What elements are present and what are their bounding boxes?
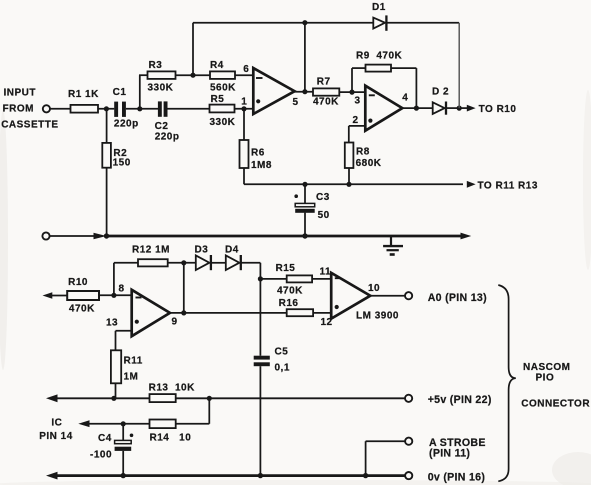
svg-text:+5v (PIN 22): +5v (PIN 22) bbox=[428, 394, 492, 406]
svg-text:0v (PIN 16): 0v (PIN 16) bbox=[428, 471, 485, 483]
svg-text:470K: 470K bbox=[313, 96, 339, 107]
resistor R5 bbox=[210, 105, 235, 113]
terminal A0 bbox=[405, 292, 412, 299]
arrowhead bbox=[94, 233, 107, 240]
wire bbox=[244, 183, 463, 185]
svg-text:220p: 220p bbox=[114, 118, 139, 129]
svg-text:R4: R4 bbox=[210, 60, 224, 71]
terminal A STROBE bbox=[405, 438, 412, 445]
capacitor C3 bbox=[304, 184, 306, 203]
wire bbox=[293, 91, 313, 93]
wire bbox=[446, 107, 461, 109]
diode D4 bbox=[226, 255, 240, 270]
resistor R14 bbox=[150, 420, 176, 429]
diode D3 bbox=[196, 255, 210, 270]
svg-text:10: 10 bbox=[368, 283, 380, 294]
svg-text:INPUT: INPUT bbox=[4, 88, 37, 99]
capacitor C4 bbox=[122, 424, 124, 441]
svg-text:6: 6 bbox=[243, 64, 249, 75]
svg-text:LM 3900: LM 3900 bbox=[356, 311, 399, 322]
node junction bbox=[302, 182, 307, 187]
wire bbox=[50, 108, 70, 110]
svg-text:FROM: FROM bbox=[3, 104, 34, 115]
wire bbox=[116, 330, 132, 332]
node junction bbox=[104, 106, 109, 111]
wire bbox=[312, 278, 331, 280]
wire bbox=[211, 262, 226, 264]
svg-text:470K: 470K bbox=[277, 285, 303, 296]
node junction bbox=[111, 396, 116, 401]
svg-text:330K: 330K bbox=[210, 117, 236, 128]
svg-text:D1: D1 bbox=[372, 2, 386, 13]
svg-text:1M: 1M bbox=[124, 372, 139, 383]
top wire bbox=[193, 22, 374, 24]
svg-text:R15: R15 bbox=[276, 263, 296, 274]
svg-text:A0 (PIN 13): A0 (PIN 13) bbox=[428, 292, 487, 304]
node junction bbox=[111, 293, 116, 298]
svg-text:220p: 220p bbox=[155, 132, 180, 143]
input terminal bbox=[43, 105, 50, 112]
resistor R16 bbox=[287, 309, 313, 316]
svg-text:PIO: PIO bbox=[536, 373, 555, 384]
svg-text:D 2: D 2 bbox=[432, 86, 449, 97]
node junction bbox=[457, 106, 462, 111]
wire bbox=[208, 398, 210, 424]
svg-text:13: 13 bbox=[106, 317, 118, 328]
op-amp U1d bbox=[331, 273, 370, 319]
wire bbox=[458, 23, 460, 108]
node junction bbox=[302, 20, 307, 25]
resistor R1 bbox=[71, 105, 99, 113]
capacitor C2 bbox=[158, 101, 162, 116]
svg-text:R1 1K: R1 1K bbox=[68, 89, 99, 100]
svg-text:D3: D3 bbox=[195, 244, 209, 255]
svg-text:0,1: 0,1 bbox=[275, 363, 290, 374]
wire bbox=[313, 312, 331, 314]
arrow to R10 bbox=[461, 107, 468, 109]
node junction bbox=[363, 473, 368, 478]
wire bbox=[241, 262, 261, 264]
svg-text:330K: 330K bbox=[148, 82, 174, 93]
svg-text:1M8: 1M8 bbox=[251, 160, 272, 171]
terminal +5v bbox=[405, 395, 412, 402]
arrow to R11 R13 bbox=[467, 181, 476, 188]
svg-text:R6: R6 bbox=[251, 148, 265, 159]
terminal 0v bbox=[405, 472, 412, 479]
resistor R13 bbox=[150, 394, 176, 402]
svg-text:R7: R7 bbox=[317, 76, 331, 87]
svg-text:8: 8 bbox=[119, 284, 125, 295]
wire bbox=[139, 75, 141, 109]
wire bbox=[259, 279, 261, 356]
wire bbox=[369, 295, 405, 297]
wire bbox=[260, 278, 286, 280]
node junction bbox=[241, 106, 246, 111]
arrow IC pin 14 bbox=[88, 423, 123, 425]
svg-text:2: 2 bbox=[353, 115, 359, 126]
node junction bbox=[258, 276, 263, 281]
svg-text:R13 10K: R13 10K bbox=[149, 383, 196, 394]
svg-text:50: 50 bbox=[318, 210, 330, 221]
wire bbox=[235, 74, 254, 76]
svg-text:TO R10: TO R10 bbox=[479, 104, 517, 115]
terminal bbox=[42, 232, 49, 239]
wire bbox=[304, 23, 306, 92]
resistor R8 bbox=[345, 143, 354, 169]
0v rail bbox=[46, 472, 58, 480]
svg-text:NASCOM: NASCOM bbox=[523, 362, 570, 373]
svg-text:R9 470K: R9 470K bbox=[356, 50, 403, 61]
svg-text:-100: -100 bbox=[90, 450, 112, 461]
wire bbox=[168, 312, 287, 314]
diode D1 bbox=[373, 18, 385, 29]
svg-text:R14 10: R14 10 bbox=[150, 433, 192, 444]
wire bbox=[99, 294, 132, 296]
svg-text:560K: 560K bbox=[210, 82, 236, 93]
node junction bbox=[137, 106, 142, 111]
svg-text:9: 9 bbox=[172, 316, 178, 327]
wire bbox=[351, 68, 353, 92]
svg-text:CASSETTE: CASSETTE bbox=[1, 119, 58, 130]
resistor R4 bbox=[210, 71, 235, 79]
wire bbox=[183, 263, 185, 313]
wire bbox=[113, 263, 115, 296]
bus wire bbox=[107, 235, 463, 238]
svg-text:4: 4 bbox=[402, 93, 408, 104]
diode D2 bbox=[433, 102, 445, 114]
svg-text:D4: D4 bbox=[225, 244, 239, 255]
svg-text:R10: R10 bbox=[68, 277, 88, 288]
svg-text:R12 1M: R12 1M bbox=[132, 244, 170, 255]
node junction bbox=[121, 421, 126, 426]
node junction bbox=[302, 233, 307, 238]
op-amp U1b bbox=[365, 86, 402, 131]
svg-text:R8: R8 bbox=[356, 146, 370, 157]
svg-text:R3: R3 bbox=[149, 60, 163, 71]
svg-text:150: 150 bbox=[113, 158, 131, 169]
+5v rail bbox=[46, 394, 58, 402]
resistor R10 bbox=[67, 291, 99, 300]
brace bbox=[498, 285, 516, 481]
resistor R3 bbox=[148, 71, 176, 79]
svg-text:C1: C1 bbox=[113, 87, 127, 98]
svg-text:3: 3 bbox=[355, 95, 361, 106]
svg-text:CONNECTOR: CONNECTOR bbox=[521, 398, 590, 409]
node junction bbox=[349, 90, 354, 95]
svg-text:C5: C5 bbox=[275, 346, 289, 357]
svg-text:R16: R16 bbox=[279, 298, 299, 309]
wire bbox=[126, 108, 159, 110]
svg-text:PIN 14: PIN 14 bbox=[39, 431, 73, 442]
svg-text:470K: 470K bbox=[69, 304, 95, 315]
capacitor C5 bbox=[254, 356, 270, 360]
arrowhead bbox=[461, 233, 472, 240]
node junction bbox=[346, 182, 351, 187]
wire bbox=[366, 440, 405, 442]
capacitor C1 bbox=[114, 102, 118, 117]
node junction bbox=[258, 473, 263, 478]
svg-text:R5: R5 bbox=[211, 94, 225, 105]
wire bbox=[168, 262, 196, 264]
svg-text:(PIN 11): (PIN 11) bbox=[429, 448, 470, 460]
svg-text:5: 5 bbox=[293, 97, 299, 108]
resistor R12 bbox=[138, 259, 168, 266]
wire bbox=[50, 235, 95, 237]
svg-text:TO R11 R13: TO R11 R13 bbox=[478, 180, 538, 191]
resistor R9 bbox=[366, 65, 392, 72]
node junction bbox=[302, 89, 307, 94]
op-amp U1a bbox=[253, 68, 294, 114]
svg-text:R11: R11 bbox=[124, 356, 143, 367]
svg-text:11: 11 bbox=[320, 267, 332, 278]
resistor R6 bbox=[240, 140, 249, 168]
svg-text:C4: C4 bbox=[98, 433, 112, 444]
op-amp U1c bbox=[132, 290, 170, 336]
ground bbox=[390, 236, 392, 246]
node junction bbox=[181, 260, 186, 265]
node junction bbox=[181, 310, 186, 315]
svg-text:680K: 680K bbox=[356, 158, 382, 169]
node junction bbox=[207, 396, 212, 401]
resistor R2 bbox=[102, 143, 111, 168]
resistor R11 bbox=[111, 350, 121, 383]
wire bbox=[123, 423, 149, 425]
wire bbox=[339, 91, 365, 93]
wire bbox=[176, 74, 211, 76]
node junction bbox=[121, 473, 126, 478]
input arrow bbox=[43, 292, 53, 299]
svg-text:IC: IC bbox=[51, 418, 62, 429]
wire bbox=[98, 108, 114, 110]
wire bbox=[235, 108, 254, 110]
resistor R15 bbox=[287, 275, 312, 282]
node junction bbox=[414, 106, 419, 111]
svg-text:1: 1 bbox=[241, 97, 247, 108]
wire bbox=[391, 67, 416, 69]
node junction bbox=[104, 233, 109, 238]
wire bbox=[168, 108, 210, 110]
svg-text:C3: C3 bbox=[316, 192, 330, 203]
wire bbox=[401, 107, 433, 109]
node junction bbox=[190, 73, 195, 78]
resistor R7 bbox=[313, 88, 339, 95]
